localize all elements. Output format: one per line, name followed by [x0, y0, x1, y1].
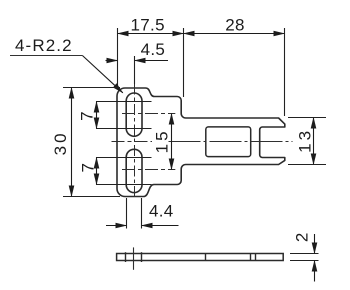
- extension line left edge (top): [117, 28, 119, 87]
- svg-text:28: 28: [225, 16, 245, 35]
- dimension 28: [184, 33, 285, 35]
- dimension 7 bottom: [96, 158, 98, 185]
- svg-text:30: 30: [51, 130, 70, 155]
- side view centerline: [133, 247, 135, 269]
- horizontal centerline bottom slot: [122, 169, 175, 171]
- dimension 15: [171, 114, 173, 170]
- part outline (plan view): [117, 88, 285, 197]
- horizontal mid centerline left part: [112, 141, 153, 143]
- svg-text:2: 2: [293, 233, 312, 242]
- slot hole bottom (obround): [126, 149, 142, 192]
- svg-text:7: 7: [78, 111, 97, 120]
- side view edge line (inner rect right): [250, 254, 252, 261]
- svg-text:17.5: 17.5: [131, 16, 165, 35]
- extension lines 7 bottom: [96, 157, 152, 159]
- dimension 4.4: [106, 225, 127, 227]
- extension lines 7 top: [96, 101, 152, 103]
- slot hole top (obround): [126, 93, 142, 136]
- side view edge line (inner rect left): [205, 254, 207, 261]
- inner rectangle feature: [206, 127, 251, 157]
- dimension 17.5: [118, 33, 184, 35]
- horizontal centerline top slot: [122, 113, 175, 115]
- extension line step edge: [183, 28, 185, 97]
- extension lines 13: [288, 117, 326, 119]
- svg-text:4.4: 4.4: [149, 202, 174, 221]
- side view edge line (fork wall): [255, 254, 257, 261]
- dimension 4.5: [106, 60, 118, 62]
- horizontal mid centerline right part: [169, 141, 293, 143]
- extension lines 2: [290, 253, 319, 255]
- svg-text:13: 13: [296, 128, 315, 153]
- extension lines 30: [63, 87, 120, 89]
- vertical centerline through slots: [134, 84, 136, 199]
- side view plate: [117, 254, 284, 261]
- svg-text:7: 7: [79, 163, 98, 172]
- dimension 13: [313, 118, 315, 165]
- extension line right edge: [284, 28, 286, 116]
- dimension 2: [314, 234, 316, 254]
- extension lines 4.4: [126, 198, 128, 229]
- dimension 7 top: [96, 102, 98, 129]
- svg-text:15: 15: [152, 128, 171, 153]
- dimension 30: [71, 88, 73, 197]
- svg-text:4-R2.2: 4-R2.2: [15, 36, 73, 55]
- side view slot edge line right: [141, 252, 143, 262]
- svg-text:4.5: 4.5: [141, 40, 166, 59]
- side view slot edge line left: [125, 252, 127, 262]
- extension line slot centerline up: [134, 56, 136, 84]
